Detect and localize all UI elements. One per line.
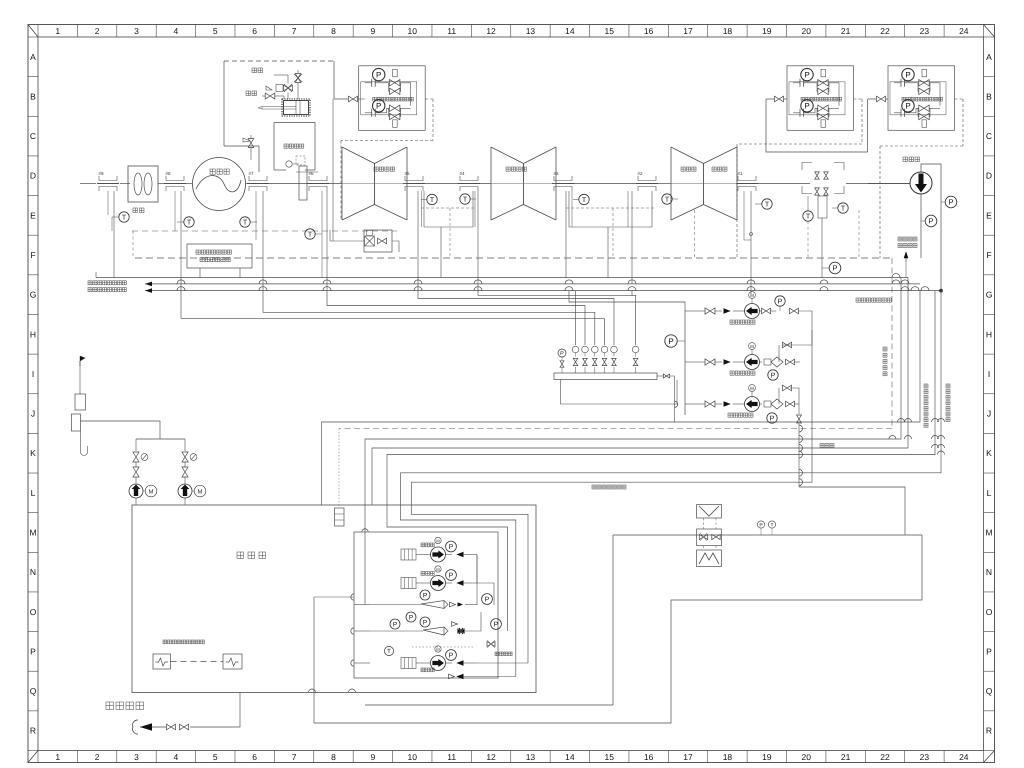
svg-text:C: C: [30, 131, 36, 141]
svg-text:K: K: [986, 448, 992, 458]
svg-text:O: O: [986, 607, 993, 617]
svg-text:#8: #8: [165, 171, 171, 176]
drain cascade 3: [327, 291, 585, 345]
svg-text:#1: #1: [737, 171, 743, 176]
HP filter station B inlet: [868, 96, 888, 102]
svg-text:K: K: [30, 448, 36, 458]
svg-text:6: 6: [252, 752, 257, 762]
bundle wrap line 1: [322, 291, 921, 505]
turbine supervisory panel: [187, 244, 252, 278]
bearing 5 drain riser: [418, 191, 478, 284]
vertical text column 2: [924, 384, 928, 427]
turning oil line: [799, 487, 905, 535]
turning gear drain: [322, 191, 327, 291]
trip block box: [330, 230, 399, 252]
oil vapour extractor enclosure: [224, 61, 334, 172]
svg-text:1: 1: [55, 26, 60, 36]
svg-text:Q: Q: [30, 686, 37, 696]
svg-text:19: 19: [762, 26, 772, 36]
vapour fan line label: [592, 485, 626, 489]
svg-text:18: 18: [723, 26, 733, 36]
svg-text:N: N: [986, 567, 992, 577]
breather unit lower: [72, 414, 81, 431]
AST solenoid header bar: [554, 373, 657, 380]
svg-text:8: 8: [331, 752, 336, 762]
jacking oil header: [145, 283, 920, 285]
turning gear housing box: [274, 123, 315, 171]
TI thrust left: [803, 196, 813, 221]
jacking pump2 discharge: [730, 330, 812, 380]
solenoid valve columns: [572, 346, 639, 373]
filter1 dashed outlet: [341, 99, 433, 219]
oil pump DC EOP: [401, 646, 477, 671]
svg-text:#9: #9: [98, 171, 104, 176]
shaft centerline: [80, 183, 910, 185]
oil pump AC EOP B: [401, 566, 477, 591]
svg-text:T: T: [841, 206, 846, 213]
svg-text:P: P: [905, 102, 910, 111]
svg-text:P: P: [423, 619, 427, 626]
jacking oil pump #1: [694, 292, 762, 319]
bearing #3: [552, 171, 574, 191]
manifold crossing bumps: [177, 280, 828, 291]
bearing 8 drain: [175, 191, 181, 278]
svg-text:7: 7: [292, 752, 297, 762]
drain cascade 6: [631, 291, 633, 296]
svg-text:M: M: [985, 527, 992, 537]
svg-text:T: T: [770, 522, 773, 528]
flame arrestor flag: [80, 356, 85, 394]
bearing 1 drain: [744, 191, 772, 291]
svg-text:E: E: [986, 210, 992, 220]
svg-text:P: P: [409, 614, 413, 621]
svg-text:T: T: [308, 232, 313, 239]
heat exchanger stack: [697, 505, 722, 567]
HP filter station A inlet: [766, 96, 787, 102]
TI bearing right: [460, 194, 476, 204]
svg-text:14: 14: [565, 26, 575, 36]
bearing #9: [97, 171, 119, 191]
dashed instrument drops D-F: [808, 210, 859, 258]
PI jacking common: [665, 335, 685, 347]
svg-text:5: 5: [213, 26, 218, 36]
lube oil filter station B: [888, 66, 955, 131]
lube oil filter station A: [787, 66, 854, 131]
vertical text column 3: [946, 384, 950, 422]
TI turning gear: [305, 229, 322, 239]
svg-text:10: 10: [408, 26, 418, 36]
svg-text:2: 2: [95, 752, 100, 762]
svg-text:P: P: [376, 102, 381, 111]
svg-text:6: 6: [252, 26, 257, 36]
main oil pump label: [903, 157, 920, 162]
gen leads down: [330, 99, 333, 241]
svg-text:5: 5: [213, 752, 218, 762]
pipe from enclosure to filter: [334, 96, 359, 102]
svg-text:8: 8: [331, 26, 336, 36]
svg-text:L: L: [987, 488, 992, 498]
TI thrust right: [832, 203, 848, 213]
svg-text:#2: #2: [637, 171, 643, 176]
svg-text:T: T: [665, 197, 670, 204]
svg-text:7: 7: [292, 26, 297, 36]
svg-text:M: M: [436, 647, 440, 652]
bundle wrap line 4: [387, 291, 935, 631]
AC lube oil pump B: [178, 439, 206, 505]
svg-text:M: M: [149, 488, 154, 495]
svg-text:P: P: [560, 351, 564, 357]
PI main pump 2: [921, 215, 937, 227]
TI generator right: [240, 217, 257, 227]
drain cascade 1: [181, 278, 605, 346]
jacking oil pump #3: [694, 385, 762, 412]
bearing #2: [636, 171, 658, 191]
cooler PT instruments: [757, 521, 775, 535]
bundle wrap line 6: [411, 330, 812, 663]
thrust pads: [815, 172, 828, 278]
svg-text:G: G: [986, 290, 993, 300]
standby cooler label: [898, 237, 917, 278]
turning oil label: [820, 444, 834, 448]
manifold right end loops: [892, 274, 943, 293]
svg-text:I: I: [32, 369, 34, 379]
svg-text:Q: Q: [986, 686, 993, 696]
bearing 7 drain: [256, 191, 263, 284]
svg-text:P: P: [804, 70, 809, 79]
svg-text:12: 12: [486, 752, 496, 762]
svg-text:4: 4: [174, 752, 179, 762]
svg-text:16: 16: [644, 26, 654, 36]
PI header: [558, 349, 566, 373]
bearing 3 drain riser: [566, 191, 632, 284]
svg-text:17: 17: [683, 752, 693, 762]
thrust bearing block: [802, 163, 844, 194]
vent valve 2 with actuator: [274, 75, 293, 99]
tank bottom crossing bumps: [309, 689, 356, 693]
pumpB discharge: [477, 583, 494, 605]
bearing #6: [307, 171, 329, 191]
svg-text:R: R: [30, 726, 36, 736]
svg-text:20: 20: [801, 752, 811, 762]
TI exciter: [177, 217, 194, 227]
svg-text:H: H: [30, 329, 36, 339]
svg-text:17: 17: [683, 26, 693, 36]
svg-text:P: P: [449, 573, 454, 580]
header label 2: [88, 288, 126, 292]
lube oil supply header: [96, 277, 908, 279]
cluster internal headers: [476, 555, 478, 606]
bearing #1: [736, 171, 758, 191]
spare riser: [575, 291, 577, 345]
svg-text:P: P: [778, 299, 783, 306]
svg-text:P: P: [376, 70, 381, 79]
svg-text:B: B: [30, 91, 36, 101]
dashed connector E-F left: [132, 231, 134, 258]
jacking header label: [856, 298, 891, 302]
exciter box: [128, 166, 158, 213]
bearing 9 drain: [108, 191, 114, 278]
filter feed risers: [766, 99, 868, 152]
motor circle M: [286, 161, 299, 167]
TI bearing right: [662, 194, 678, 204]
goose neck drain: [81, 431, 88, 456]
header drain box: [561, 380, 678, 405]
filterA dashed outlet: [737, 99, 862, 258]
tank heaters: [153, 640, 242, 669]
svg-text:F: F: [986, 250, 991, 260]
bumps at right risers: [889, 419, 945, 455]
svg-text:#4: #4: [459, 171, 465, 176]
bundle crossing bumps on riser: [799, 425, 803, 486]
svg-text:9: 9: [370, 752, 375, 762]
bundle wrap line 5: [401, 291, 942, 677]
svg-text:T: T: [430, 197, 435, 204]
right big box: [314, 535, 922, 723]
oil vapour separator tank (hatched): [282, 99, 310, 116]
svg-text:T: T: [765, 202, 770, 209]
DC emergency pump: [384, 640, 528, 679]
bearing #5: [403, 171, 425, 191]
drain cascade 7: [750, 291, 752, 294]
svg-text:2: 2: [95, 26, 100, 36]
header left arrows: [96, 272, 152, 293]
jacking pump1 discharge: [730, 296, 812, 330]
svg-text:P: P: [393, 621, 397, 628]
svg-text:11: 11: [447, 26, 456, 36]
svg-text:F: F: [30, 250, 35, 260]
svg-text:3: 3: [134, 26, 139, 36]
svg-text:P: P: [804, 102, 809, 111]
jacking pump suction manifold: [685, 311, 694, 415]
level gauge dotted drop: [338, 429, 340, 509]
turning gear narrow housing: [296, 156, 318, 200]
svg-text:11: 11: [447, 752, 456, 762]
svg-text:20: 20: [801, 26, 811, 36]
svg-text:T: T: [122, 215, 127, 222]
jacking suction line: [569, 291, 685, 311]
TI bearing left: [421, 194, 437, 204]
svg-text:24: 24: [959, 752, 969, 762]
bearing #4: [458, 171, 480, 191]
svg-text:O: O: [30, 607, 37, 617]
lube oil filter station #1: [359, 66, 426, 131]
svg-text:J: J: [31, 409, 35, 419]
svg-text:14: 14: [565, 752, 575, 762]
filterB dashed outlet: [880, 99, 963, 258]
main oil tank: [132, 505, 536, 693]
generator: [193, 158, 246, 211]
dashed drop turbine3 right: [694, 210, 696, 258]
bearing #7: [247, 171, 269, 191]
AC pump supply line: [81, 421, 161, 439]
svg-text:P: P: [832, 264, 837, 273]
svg-text:P: P: [449, 544, 454, 551]
svg-text:J: J: [987, 409, 991, 419]
PI main pump discharge: [941, 196, 957, 208]
svg-text:13: 13: [526, 26, 536, 36]
svg-text:4: 4: [174, 26, 179, 36]
dashed signal line row E: [132, 230, 397, 232]
bundle wrap line 3: [372, 278, 908, 506]
turbine #1 LP: [491, 147, 556, 220]
svg-text:P: P: [948, 198, 953, 207]
svg-text:L: L: [31, 488, 36, 498]
svg-text:N: N: [30, 567, 36, 577]
vent relief valve: [262, 86, 284, 99]
svg-text:A: A: [30, 52, 36, 62]
vent label: [252, 68, 263, 73]
svg-text:E: E: [30, 210, 36, 220]
svg-text:T: T: [806, 214, 811, 221]
svg-text:P: P: [986, 646, 992, 656]
svg-text:15: 15: [605, 26, 615, 36]
svg-text:M: M: [750, 344, 754, 349]
svg-text:22: 22: [880, 752, 890, 762]
svg-text:P: P: [485, 597, 490, 604]
svg-text:R: R: [986, 726, 992, 736]
svg-text:10: 10: [408, 752, 418, 762]
svg-text:P: P: [771, 373, 776, 380]
svg-text:P: P: [494, 622, 499, 629]
suction pipe into separator: [258, 107, 296, 110]
svg-text:P: P: [770, 416, 775, 423]
svg-text:24: 24: [959, 26, 969, 36]
jacking oil pump #2: [694, 343, 762, 370]
vertical text column 1: [883, 347, 887, 376]
PI row F left: [822, 262, 841, 274]
dashed oil supply line row F: [135, 257, 892, 259]
svg-text:T: T: [243, 220, 248, 227]
svg-text:T: T: [582, 197, 587, 204]
emergency drain: [106, 693, 240, 735]
TI generator left: [112, 212, 129, 231]
svg-text:21: 21: [841, 752, 851, 762]
svg-text:M: M: [436, 567, 440, 572]
svg-text:23: 23: [920, 752, 930, 762]
svg-text:D: D: [30, 171, 36, 181]
svg-text:T: T: [187, 220, 192, 227]
vent valve 1: [294, 70, 302, 99]
jacking pump3 discharge: [728, 385, 801, 487]
svg-text:A: A: [986, 52, 992, 62]
pumpA discharge riser: [476, 555, 478, 584]
svg-text:16: 16: [644, 752, 654, 762]
drain cascade 2: [263, 284, 595, 345]
svg-text:P: P: [905, 70, 910, 79]
oil return header: [145, 290, 941, 292]
svg-text:H: H: [986, 329, 992, 339]
svg-text:22: 22: [880, 26, 890, 36]
svg-text:3: 3: [134, 752, 139, 762]
svg-text:I: I: [988, 369, 990, 379]
svg-text:M: M: [29, 527, 36, 537]
svg-text:P: P: [449, 653, 454, 660]
oil ejector 1: [370, 590, 492, 622]
svg-text:P: P: [30, 646, 36, 656]
svg-text:P: P: [423, 592, 427, 599]
AC lube oil pump A: [129, 439, 157, 505]
filter1 inner pipes: [359, 98, 365, 100]
svg-text:G: G: [30, 290, 37, 300]
bearing #8: [164, 171, 186, 191]
oil pump AC EOP A: [401, 537, 477, 562]
svg-text:13: 13: [526, 752, 536, 762]
drain cascade 4: [418, 278, 614, 346]
svg-text:P: P: [668, 337, 673, 346]
svg-text:9: 9: [370, 26, 375, 36]
bundle wrap line 2: [365, 278, 901, 605]
svg-text:P: P: [928, 217, 933, 226]
turbine #2 LP: [342, 147, 407, 220]
cluster enclosure: [354, 532, 498, 678]
svg-text:M: M: [750, 293, 754, 298]
svg-text:1: 1: [55, 752, 60, 762]
svg-text:T: T: [463, 197, 468, 204]
svg-text:D: D: [986, 171, 992, 181]
cluster feeds: [314, 529, 370, 723]
svg-text:23: 23: [920, 26, 930, 36]
svg-text:M: M: [750, 386, 754, 391]
svg-text:19: 19: [762, 752, 772, 762]
drain cascade 5: [478, 284, 636, 345]
bearing drain collector box: [566, 191, 654, 278]
TI bearing left: [573, 194, 589, 204]
tank level gauge: [335, 508, 345, 526]
main oil pump: [868, 164, 941, 289]
oil ejector 2: [370, 612, 501, 635]
svg-text:15: 15: [605, 752, 615, 762]
separator inlet valve: [243, 135, 254, 160]
svg-text:M: M: [436, 538, 440, 543]
header outlet: [657, 374, 678, 422]
turbine HP/IP: [671, 147, 737, 220]
breather unit upper: [75, 394, 86, 410]
svg-text:M: M: [198, 488, 203, 495]
bundle dashed line: [339, 428, 892, 430]
svg-text:18: 18: [723, 752, 733, 762]
svg-text:C: C: [986, 131, 992, 141]
svg-text:T: T: [387, 648, 391, 655]
svg-text:21: 21: [841, 26, 851, 36]
svg-text:#7: #7: [248, 171, 254, 176]
header label 1: [88, 281, 126, 285]
svg-text:B: B: [986, 91, 992, 101]
bearing drain collector box: [421, 191, 475, 278]
svg-text:12: 12: [486, 26, 496, 36]
